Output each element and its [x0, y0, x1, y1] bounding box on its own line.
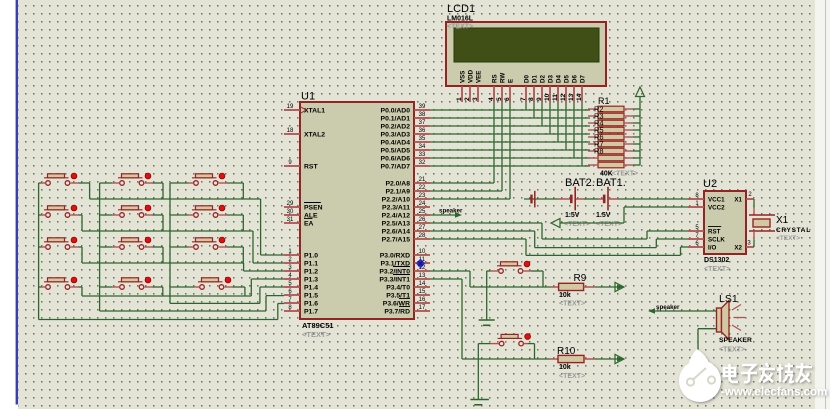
- wire col1 to P1.6: [39, 304, 284, 320]
- svg-text:BAT1.: BAT1.: [596, 177, 626, 189]
- svg-text:30: 30: [287, 209, 294, 215]
- wire col3 to P1.4: [170, 287, 284, 303]
- svg-text:1.5V: 1.5V: [596, 212, 611, 219]
- wire X2 bottom: [753, 231, 755, 247]
- svg-text:I/O: I/O: [708, 245, 716, 252]
- wire RS to P2.0: [430, 102, 494, 183]
- svg-text:<TEXT>: <TEXT>: [447, 24, 473, 31]
- wire row4 to P1.3: [82, 279, 284, 296]
- svg-text:P0.6/AD6: P0.6/AD6: [381, 156, 411, 163]
- svg-text:29: 29: [287, 201, 294, 207]
- svg-text:28: 28: [419, 233, 426, 239]
- push button key R2C1: [44, 205, 77, 217]
- U1 pin 29 PSEN: [284, 201, 323, 212]
- U1 pin 27 P2.6/A14: [382, 225, 430, 236]
- svg-text:15: 15: [419, 289, 426, 295]
- svg-text:12: 12: [560, 93, 567, 101]
- svg-text:7: 7: [520, 97, 527, 101]
- wire D1 to P0.1: [533, 102, 535, 118]
- svg-text:speaker: speaker: [439, 208, 463, 215]
- svg-text:P1.3: P1.3: [304, 277, 318, 284]
- R9 property label: [559, 301, 585, 308]
- U1 pin 36 P0.3/AD3: [381, 128, 430, 139]
- wire row1 to P1.0: [90, 199, 284, 255]
- svg-text:25: 25: [419, 209, 426, 215]
- svg-text:-www.elecfans.com: -www.elecfans.com: [721, 387, 827, 399]
- svg-text:3: 3: [472, 97, 479, 101]
- U1 pin 10 P3.0/RXD: [380, 249, 430, 260]
- svg-text:P1.0: P1.0: [304, 253, 318, 260]
- wire key R1C3 jog: [219, 183, 244, 199]
- svg-text:D1: D1: [532, 75, 539, 83]
- LCD1 reference label: [447, 3, 475, 15]
- U2 pin 7 SCLK: [688, 233, 725, 244]
- wire key R3C2 jog: [145, 247, 163, 263]
- svg-text:<TEXT>: <TEXT>: [719, 347, 745, 354]
- LS1 reference label: [719, 293, 738, 305]
- U1 reference label: [301, 91, 315, 103]
- wire SW-R10 left to ground: [478, 344, 499, 400]
- svg-text:<TEXT>: <TEXT>: [559, 373, 585, 380]
- svg-text:D0: D0: [524, 75, 531, 83]
- wire pull-up rail: [639, 97, 641, 166]
- svg-text:18: 18: [287, 128, 294, 134]
- push button key R1C1: [44, 173, 77, 185]
- R7 reference label: [594, 140, 604, 149]
- microcontroller U1 body: [300, 102, 414, 319]
- X1 reference label: [776, 215, 789, 226]
- svg-text:XTAL1: XTAL1: [304, 108, 325, 115]
- wire RW to P2.1: [430, 102, 502, 191]
- U1 pin 21 P2.0/A8: [385, 177, 430, 188]
- wire key R1C1 jog: [71, 183, 90, 199]
- U1 pin 30 ALE: [284, 209, 318, 220]
- svg-text:P3.0/RXD: P3.0/RXD: [380, 253, 410, 260]
- LCD1 pin 9 D2: [536, 75, 547, 102]
- output terminal (R10): [615, 354, 624, 363]
- wire key R4C1 jog: [71, 287, 82, 296]
- svg-text:5: 5: [496, 97, 503, 101]
- U2 pin 8 VCC1: [688, 193, 725, 204]
- U1 pin 39 P0.0/AD0: [381, 104, 430, 115]
- svg-text:<TEXT>: <TEXT>: [776, 235, 800, 242]
- svg-text:37: 37: [419, 120, 426, 126]
- U2 pin 3 X2: [734, 241, 754, 252]
- LS1 property label: [719, 347, 745, 354]
- svg-text:R9: R9: [574, 273, 587, 284]
- svg-text:D3: D3: [548, 75, 555, 83]
- wire key R3C1 jog: [71, 247, 82, 263]
- svg-text:VCC2: VCC2: [708, 205, 725, 212]
- svg-text:P3.7/RD: P3.7/RD: [384, 309, 410, 316]
- svg-text:23: 23: [419, 193, 426, 199]
- wire P2.6 to U2 SCLK: [430, 231, 688, 248]
- LS1 value label SPEAKER: [719, 337, 752, 344]
- R1 value label 40K: [600, 171, 613, 178]
- svg-text:BAT2.: BAT2.: [565, 177, 595, 189]
- svg-text:22: 22: [419, 185, 426, 191]
- svg-text:35: 35: [419, 136, 426, 142]
- svg-text:P2.6/A14: P2.6/A14: [382, 229, 411, 236]
- wire D3 to P0.3: [549, 102, 551, 134]
- U1 pin 26 P2.5/A13: [382, 217, 430, 228]
- wire P0.1 bus: [430, 117, 590, 119]
- svg-text:P2.3/A11: P2.3/A11: [382, 205, 410, 212]
- U2 pin 1 VCC2: [688, 201, 725, 212]
- U1 pin 16 P3.6/WR: [383, 297, 430, 308]
- svg-text:P1.5: P1.5: [304, 293, 318, 300]
- svg-text:<TEXT>: <TEXT>: [704, 266, 730, 273]
- U1 pin 2 P1.1: [284, 257, 318, 268]
- svg-text:P0.5/AD5: P0.5/AD5: [381, 148, 411, 155]
- wire col3 feed row4: [170, 286, 200, 288]
- svg-text:P0.4/AD4: P0.4/AD4: [381, 140, 411, 147]
- watermark url: [721, 387, 827, 399]
- svg-text:U1: U1: [301, 91, 315, 103]
- U1 pin 23 P2.2/A10: [382, 193, 430, 204]
- svg-text:E: E: [508, 79, 515, 83]
- U2 pin 6 I/O: [688, 241, 716, 252]
- svg-text:SCLK: SCLK: [708, 237, 725, 244]
- LCD screen: [454, 28, 599, 62]
- wire key R2C1 jog: [71, 215, 82, 231]
- svg-text:PSEN: PSEN: [304, 205, 323, 212]
- U1 pin 18 XTAL2: [284, 128, 325, 139]
- U2 reference label: [703, 178, 717, 190]
- wire P0.0 bus: [430, 109, 590, 111]
- LCD LCD1 body: [446, 22, 606, 86]
- wire col2 feed row1: [100, 182, 120, 184]
- svg-text:CRYSTAL: CRYSTAL: [776, 227, 811, 234]
- svg-text:38: 38: [419, 112, 426, 118]
- svg-text:10k: 10k: [559, 292, 571, 299]
- svg-text:VCC1: VCC1: [708, 197, 725, 204]
- wire row3 to P1.2: [82, 263, 284, 271]
- svg-text:RST: RST: [708, 229, 721, 236]
- svg-text:14: 14: [419, 281, 426, 287]
- wire col1 feed row1: [39, 182, 46, 184]
- svg-text:19: 19: [287, 104, 294, 110]
- LCD1 pin 1 VSS: [456, 71, 467, 102]
- svg-text:P2.1/A9: P2.1/A9: [385, 189, 410, 196]
- wire col2 feed row4: [100, 286, 120, 288]
- U1 pin 3 P1.2: [284, 265, 318, 276]
- svg-text:speaker: speaker: [656, 304, 680, 311]
- svg-text:AT89C51: AT89C51: [302, 321, 334, 330]
- U1 pin 15 P3.5/T1: [386, 289, 430, 300]
- LCD1 pin 13 D6: [568, 75, 579, 102]
- R8 reference label: [594, 147, 604, 156]
- svg-text:R10: R10: [557, 346, 576, 357]
- LCD1 pin 5 RW: [496, 73, 507, 102]
- BAT1 reference label: [596, 177, 626, 189]
- R10 property label: [559, 373, 585, 380]
- wire P0.4 bus: [430, 141, 590, 143]
- svg-text:DS1302: DS1302: [704, 257, 729, 264]
- svg-text:11: 11: [552, 94, 559, 101]
- LCD1 pin 12 D5: [560, 75, 571, 102]
- BAT2 property label: [564, 221, 590, 228]
- wire col1 feed row3: [39, 246, 46, 248]
- R6 reference label: [594, 133, 604, 142]
- wire VCC2 net: [560, 207, 688, 223]
- svg-text:D2: D2: [540, 75, 547, 83]
- U1 property label: [302, 330, 331, 339]
- U1 pin 34 P0.5/AD5: [381, 144, 430, 155]
- svg-text:31: 31: [287, 217, 294, 223]
- R5 reference label: [594, 126, 604, 135]
- svg-text:RW: RW: [500, 73, 507, 83]
- U1 pin 11 P3.1/TXD: [381, 257, 430, 268]
- svg-text:13: 13: [568, 93, 575, 101]
- svg-text:D4: D4: [556, 75, 563, 83]
- wire key R4C3 jog: [225, 287, 245, 296]
- svg-text:26: 26: [419, 217, 426, 223]
- U1 pin 25 P2.4/A12: [382, 209, 430, 220]
- svg-text:VEE: VEE: [476, 71, 483, 83]
- BAT2 reference label: [565, 177, 595, 189]
- push button key R3C3: [192, 237, 225, 249]
- svg-text:RST: RST: [304, 164, 318, 171]
- speaker LS1: [717, 301, 746, 340]
- U1 pin 14 P3.4/T0: [386, 281, 430, 292]
- wire SW-R9 right: [523, 271, 543, 287]
- U1 pin 1 P1.0: [284, 249, 318, 260]
- push button key R3C2: [118, 237, 151, 249]
- push button key R2C3: [192, 205, 225, 217]
- wire key R1C2 jog: [145, 183, 163, 199]
- output terminal (R9): [615, 282, 624, 291]
- svg-text:6: 6: [504, 97, 511, 101]
- wire D0 to P0.0: [525, 102, 527, 110]
- U1 pin 37 P0.2/AD2: [381, 120, 430, 131]
- svg-text:P3.3/INT1: P3.3/INT1: [379, 277, 410, 284]
- svg-text:P1.2: P1.2: [304, 269, 318, 276]
- U1 pin 12 P3.2/INT0: [379, 265, 430, 276]
- svg-text:P2.5/A13: P2.5/A13: [382, 221, 411, 228]
- svg-text:1.5V: 1.5V: [565, 212, 580, 219]
- U2 pin 2 X1: [734, 192, 754, 204]
- svg-text:SPEAKER: SPEAKER: [719, 337, 752, 344]
- svg-text:X1: X1: [734, 197, 742, 204]
- wire P0.6 bus: [430, 157, 590, 159]
- svg-text:39: 39: [419, 104, 426, 110]
- svg-text:32: 32: [419, 160, 426, 166]
- svg-text:P2.7/A15: P2.7/A15: [382, 237, 411, 244]
- wire key R4C2 jog: [145, 287, 163, 296]
- push button SW-R10: [498, 334, 531, 346]
- svg-text:34: 34: [419, 144, 426, 150]
- svg-text:P1.4: P1.4: [304, 285, 318, 292]
- svg-text:16: 16: [419, 297, 426, 303]
- X1 property label: [776, 235, 800, 242]
- svg-text:LM016L: LM016L: [447, 16, 474, 23]
- U1 pin 5 P1.4: [284, 281, 318, 292]
- wire D4 to P0.4: [557, 102, 559, 142]
- wire col3 feed row3: [170, 246, 194, 248]
- BAT1 property label: [596, 221, 622, 228]
- U1 pin 7 P1.6: [284, 297, 318, 308]
- U1 pin 6 P1.5: [284, 289, 318, 300]
- U1 pin 9 RST: [284, 160, 318, 171]
- svg-text:36: 36: [419, 128, 426, 134]
- wire col2 feed row3: [100, 246, 120, 248]
- svg-text:EA: EA: [304, 221, 314, 228]
- svg-text:LCD1: LCD1: [447, 3, 475, 15]
- wire P0.2 bus: [430, 125, 590, 127]
- U2 property label: [704, 266, 730, 273]
- push button SW-R9: [497, 261, 530, 273]
- push button key R2C2: [118, 205, 151, 217]
- wire D6 to P0.6: [573, 102, 575, 158]
- LCD1 pin 6 E: [504, 79, 515, 102]
- wire col1 net vertical: [38, 183, 40, 320]
- wire E to P2.2: [430, 102, 510, 199]
- wire key R3C3 jog: [219, 247, 244, 263]
- push button key R1C3: [192, 173, 225, 185]
- svg-text:D7: D7: [580, 75, 587, 83]
- U1 pin 35 P0.4/AD4: [381, 136, 430, 147]
- svg-text:<TEXT>: <TEXT>: [559, 301, 585, 308]
- LCD1 pin 11 D4: [552, 75, 563, 102]
- svg-text:33: 33: [419, 152, 426, 158]
- U1 pin 33 P0.6/AD6: [381, 152, 430, 163]
- R9 reference label: [574, 273, 587, 284]
- wire SW-R9 left to ground: [487, 271, 499, 320]
- wire col3 net vertical: [169, 183, 171, 303]
- push button key R4C1: [44, 277, 77, 289]
- LCD1 pin 4 RS: [488, 74, 499, 102]
- svg-text:VSS: VSS: [460, 71, 467, 83]
- svg-text:LS1: LS1: [719, 293, 738, 305]
- R10 value label 10k: [559, 364, 571, 371]
- wire P0.7 bus: [430, 165, 590, 167]
- svg-text:24: 24: [419, 201, 426, 207]
- wire P0.3 bus: [430, 133, 590, 135]
- battery cell stub: [524, 198, 558, 200]
- R1 property label: [612, 171, 638, 178]
- svg-text:10: 10: [544, 93, 551, 101]
- sheet border (blue): [16, 0, 18, 405]
- watermark title: [724, 363, 812, 382]
- svg-text:P1.1: P1.1: [304, 261, 318, 268]
- resistor R10: [550, 355, 595, 362]
- LCD1 property label: [447, 24, 473, 31]
- LCD1 pin 8 D1: [528, 75, 539, 102]
- wire P0.5 bus: [430, 149, 590, 151]
- net label speaker (P2.4): [430, 208, 463, 218]
- crystal X1: [749, 215, 775, 231]
- R10 reference label: [557, 346, 576, 357]
- R4 reference label: [594, 119, 604, 128]
- wire col2 to P1.5: [100, 296, 284, 311]
- svg-text:D5: D5: [564, 75, 571, 83]
- resistor R9: [551, 283, 595, 290]
- U1 pin 31 EA: [284, 217, 314, 228]
- svg-text:D6: D6: [572, 75, 579, 83]
- svg-text:P0.3/AD3: P0.3/AD3: [381, 132, 411, 139]
- BAT2 value label 1.5V: [565, 212, 580, 219]
- ground (R10 section): [470, 400, 489, 405]
- U1 XTAL1 clock mark: [301, 107, 306, 113]
- LCD1 value label LM016L: [447, 16, 474, 23]
- R2 reference label: [594, 105, 604, 114]
- U1 pin 38 P0.1/AD1: [381, 112, 430, 123]
- right margin: [815, 0, 830, 409]
- U1 pin 13 P3.3/INT1: [379, 273, 430, 284]
- U2 pin 5 RST: [688, 225, 721, 236]
- wire col2 net vertical: [99, 183, 101, 311]
- wire key R2C3 jog: [219, 215, 244, 231]
- battery BAT1: [598, 187, 618, 211]
- svg-text:P0.0/AD0: P0.0/AD0: [381, 108, 411, 115]
- svg-text:9: 9: [536, 97, 543, 101]
- wire D7 to P0.7: [581, 102, 583, 166]
- U1 value label AT89C51: [302, 321, 334, 330]
- svg-text:P2.2/A10: P2.2/A10: [382, 197, 411, 204]
- svg-text:XTAL2: XTAL2: [304, 132, 325, 139]
- R9 value label 10k: [559, 292, 571, 299]
- wire SW-R10 right: [523, 344, 534, 359]
- U1 pin 4 P1.3: [284, 273, 318, 284]
- net label speaker (LS1): [648, 304, 717, 314]
- svg-text:P0.7/AD7: P0.7/AD7: [381, 164, 411, 171]
- push button key R1C2: [118, 173, 151, 185]
- U1 pin 28 P2.7/A15: [382, 233, 430, 244]
- wire col3 feed row2: [170, 214, 194, 216]
- wire P3.2 to R9 node: [430, 271, 551, 287]
- wire D5 to P0.5: [565, 102, 567, 150]
- U1 pin 19 XTAL1: [284, 104, 325, 115]
- push button key R4C3: [198, 277, 231, 289]
- U1 pin 22 P2.1/A9: [385, 185, 430, 196]
- wire BAT1 to U2 VCC1: [618, 198, 688, 200]
- svg-text:P2.0/A8: P2.0/A8: [385, 181, 410, 188]
- svg-text:RS: RS: [492, 74, 499, 83]
- svg-text:P1.6: P1.6: [304, 301, 318, 308]
- svg-text:P0.1/AD1: P0.1/AD1: [381, 116, 411, 123]
- svg-text:X1: X1: [776, 215, 789, 226]
- R1 reference label: [598, 96, 610, 106]
- power arrow terminal: [636, 87, 645, 97]
- resistor pack R1-R8 bodies: [588, 106, 640, 168]
- svg-text:10: 10: [419, 249, 426, 255]
- wire col2 feed row2: [100, 214, 120, 216]
- U1 pin 17 P3.7/RD: [384, 305, 430, 316]
- svg-text:<TEXT>: <TEXT>: [564, 221, 590, 228]
- LCD1 pin 7 D0: [520, 75, 531, 102]
- svg-text:P2.4/A12: P2.4/A12: [382, 213, 411, 220]
- wire P2.7 to U2 I/O: [430, 239, 688, 255]
- svg-text:10k: 10k: [559, 364, 571, 371]
- U1 pin 24 P2.3/A11: [382, 201, 430, 212]
- wire key R2C2 jog: [145, 215, 163, 231]
- ground (R9 section): [479, 320, 495, 325]
- wire col3 feed row1: [170, 182, 194, 184]
- LCD1 pin 3 VEE: [472, 71, 483, 102]
- X1 value label CRYSTAL: [776, 227, 811, 234]
- wire LS1 bottom pin: [698, 329, 717, 377]
- wire X1 top: [753, 199, 755, 215]
- U1 pin 32 P0.7/AD7: [381, 160, 430, 171]
- svg-text:P1.7: P1.7: [304, 309, 318, 316]
- LCD1 pin 10 D3: [544, 75, 555, 102]
- wire P2.5 to U2 RST: [430, 223, 688, 239]
- svg-text:X2: X2: [734, 245, 742, 252]
- svg-text:14: 14: [576, 93, 583, 101]
- U1 pin 8 P1.7: [284, 305, 318, 316]
- wire D2 to P0.2: [541, 102, 543, 126]
